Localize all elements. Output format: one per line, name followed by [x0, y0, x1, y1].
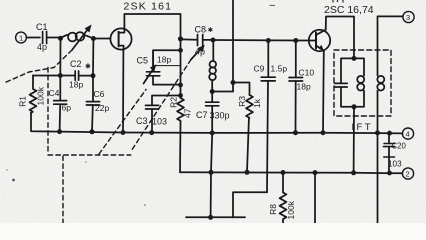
main rail (rail1): [31, 113, 402, 134]
svg-text:R1: R1: [18, 96, 28, 107]
capacitor C7: [211, 92, 213, 133]
capacitor C3: [152, 96, 181, 133]
node C5 top: [178, 48, 183, 53]
wire C9 step to rail3: [233, 192, 267, 217]
wire: [212, 91, 233, 93]
wire primary bottom to rail2: [353, 107, 355, 173]
gang dashed horizontal: [48, 154, 131, 156]
svg-text:C2: C2: [70, 59, 82, 69]
capacitor C8: [181, 38, 213, 41]
svg-text:22p: 22p: [95, 103, 109, 113]
capacitor C10: [295, 41, 297, 133]
node secondary on rail1: [375, 130, 380, 135]
svg-text:100k: 100k: [286, 200, 296, 219]
svg-text:18p: 18p: [297, 82, 311, 92]
IFT primary bottom node: [352, 104, 357, 109]
rail2: [180, 172, 402, 173]
node C9 top: [266, 38, 271, 43]
terminal 1: [16, 32, 27, 43]
svg-text:18p: 18p: [157, 55, 171, 65]
svg-text:18p: 18p: [69, 80, 83, 90]
svg-text:·✱: ·✱: [206, 26, 214, 34]
terminal 3: [403, 11, 414, 22]
svg-text:2SC 16,74: 2SC 16,74: [324, 4, 374, 16]
wire secondary top to terminal 3: [378, 16, 403, 50]
wire R3 bottom to rail2: [247, 119, 249, 173]
wire down at x315: [314, 173, 316, 223]
svg-text:C1: C1: [36, 22, 48, 32]
node rail2 dots: [209, 170, 214, 175]
wire: [93, 38, 110, 40]
wire left column: [180, 39, 182, 96]
gang dashed vertical x48: [47, 68, 49, 154]
svg-text:1: 1: [19, 34, 23, 43]
node C20 top: [387, 131, 392, 136]
resistor R8: [280, 173, 287, 224]
svg-text:R2: R2: [169, 97, 179, 108]
resistor R3: [246, 95, 253, 118]
terminal 2: [402, 168, 413, 179]
transistor Q2 2SC1674: [309, 30, 330, 51]
node A: [58, 36, 63, 41]
capacitor C1: [43, 32, 47, 44]
wire base row: [213, 39, 316, 42]
trimmer arrow C8: [191, 48, 202, 60]
inductor IFT primary: [354, 58, 364, 106]
resistor R1: [30, 76, 37, 113]
svg-text:R3: R3: [237, 96, 247, 107]
svg-text:1k: 1k: [252, 98, 262, 108]
inductor L1: [61, 35, 94, 39]
wire R3 top: [233, 83, 250, 96]
wire collector: [326, 17, 354, 59]
svg-text:47: 47: [183, 108, 193, 118]
node C5 return: [178, 83, 183, 88]
gang dashed vertical x63: [62, 156, 64, 223]
node C6 top: [91, 73, 96, 78]
gang dashed line to C8: [131, 60, 191, 152]
node drain: [178, 36, 183, 41]
rail3: [186, 216, 245, 218]
svg-text:C5: C5: [137, 56, 149, 66]
capacitor C6: [92, 76, 93, 132]
wire R2 bottom to rail2: [179, 123, 182, 172]
wire C7 column lower: [211, 133, 213, 218]
svg-text:1.5p: 1.5p: [271, 64, 288, 74]
wire long vertical: [232, 0, 234, 92]
capacitor C5 trimmer loop: [153, 50, 181, 84]
wire source: [122, 50, 124, 133]
svg-text:330p: 330p: [210, 111, 230, 121]
svg-text:103: 103: [388, 160, 402, 169]
svg-text:2SK 161: 2SK 161: [124, 1, 173, 13]
node B: [91, 36, 96, 41]
node C8 right: [211, 38, 216, 43]
svg-text:C8: C8: [195, 25, 207, 35]
capacitor IFT tank: [341, 58, 354, 106]
wire: [27, 37, 41, 39]
svg-text:C4: C4: [49, 88, 60, 98]
svg-text:✱: ✱: [85, 63, 91, 71]
svg-text:2: 2: [406, 170, 410, 179]
gang dashed line to C5: [99, 90, 146, 155]
node L2 bottom: [210, 89, 215, 94]
label box C5: [154, 50, 181, 65]
svg-text:6p: 6p: [62, 103, 72, 113]
inductor L2: [212, 40, 213, 92]
wire secondary below: [377, 133, 379, 223]
capacitor C9: [267, 41, 268, 193]
node C20 bottom: [387, 171, 392, 176]
node rail1 dots: [57, 129, 62, 134]
resistor R2: [177, 96, 184, 123]
node C10 top: [293, 38, 298, 43]
wire emitter: [322, 51, 325, 133]
svg-text:4p: 4p: [195, 47, 205, 57]
svg-text:3: 3: [406, 13, 410, 22]
gang dashed line to L1: [4, 50, 72, 83]
capacitor C20: [388, 133, 390, 173]
svg-text:–: –: [270, 0, 276, 11]
wire: [47, 37, 61, 39]
IFT primary tank top node: [352, 56, 357, 61]
svg-text:103: 103: [152, 117, 167, 127]
svg-text:C3: C3: [136, 116, 148, 126]
stray marks top edge: [333, 0, 343, 3]
node C3 branch: [178, 93, 183, 98]
tuning arrow on L1: [72, 29, 88, 50]
wire drain rail: [124, 14, 180, 39]
svg-text:4p: 4p: [37, 42, 47, 52]
capacitor C4: [59, 76, 62, 132]
svg-text:C10: C10: [299, 68, 315, 78]
svg-text:C7: C7: [196, 110, 208, 120]
wire R1 row: [33, 75, 93, 77]
svg-text:C9: C9: [254, 64, 265, 74]
node C4 top: [58, 73, 63, 78]
capacitor C2: [75, 71, 78, 80]
svg-text:C6: C6: [94, 89, 105, 99]
IFT dashed box: [334, 50, 391, 116]
svg-text:C20: C20: [392, 142, 407, 151]
svg-text:R8: R8: [268, 204, 278, 215]
wire node A down: [59, 38, 61, 75]
inductor IFT secondary: [377, 50, 379, 133]
wire node B down: [92, 39, 94, 76]
svg-text:100k: 100k: [36, 86, 46, 105]
svg-text:4: 4: [406, 130, 410, 139]
svg-text:IFT: IFT: [352, 122, 373, 133]
transistor Q1 2SK161: [110, 28, 131, 49]
scan speck: [12, 179, 15, 182]
node R3 branch: [231, 80, 236, 85]
terminal 4: [402, 128, 413, 139]
